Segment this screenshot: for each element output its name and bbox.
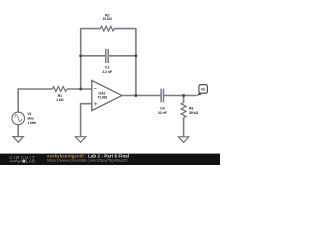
wire R3 to ground xyxy=(183,118,185,137)
wire op-amp output xyxy=(122,95,161,97)
wire feedback top right segment xyxy=(114,28,136,30)
svg-text:C1: C1 xyxy=(105,65,109,69)
svg-text:TL081: TL081 xyxy=(98,95,108,99)
wire left vertical of feedback loop xyxy=(80,28,82,89)
capacitor C1 xyxy=(106,49,108,63)
node flag Vo tail xyxy=(196,93,201,96)
junction node at op-amp output xyxy=(134,94,137,97)
voltage source V1 xyxy=(12,112,25,125)
wire C1 branch right xyxy=(108,55,136,57)
junction node at C1 right xyxy=(134,54,137,57)
footer logo orange square xyxy=(22,160,25,163)
svg-text:V1: V1 xyxy=(27,112,31,116)
junction node at inverting input xyxy=(79,88,82,91)
op-amp minus symbol xyxy=(94,88,97,90)
wire V1 bottom to ground xyxy=(17,125,19,137)
wire op-amp non-inverting input down to ground xyxy=(81,104,92,137)
resistor R2 xyxy=(100,26,114,31)
wire feedback top left segment xyxy=(81,28,101,30)
junction node at Vo/R3 xyxy=(182,94,185,97)
op-amp OA1 xyxy=(92,80,122,110)
svg-text:R3: R3 xyxy=(189,106,193,110)
capacitor C4 xyxy=(161,89,163,103)
svg-text:39 kΩ: 39 kΩ xyxy=(189,111,199,115)
op-amp plus symbol xyxy=(94,102,97,105)
ground (below R3) xyxy=(178,137,188,143)
node flag Vo box xyxy=(199,85,208,94)
footer bar xyxy=(0,154,220,165)
wire output node down to R3 xyxy=(183,96,185,103)
wire right vertical of feedback loop xyxy=(135,28,137,95)
V1 sine glyph xyxy=(15,115,22,122)
svg-text:LAB: LAB xyxy=(26,158,35,163)
ground (below op-amp + input) xyxy=(75,137,85,143)
resistor R3 xyxy=(181,103,186,118)
wire C1 branch left xyxy=(81,55,106,57)
wire C4 to output node xyxy=(164,95,197,97)
footer logo waveform xyxy=(9,160,21,163)
svg-text:2.2 nF: 2.2 nF xyxy=(102,70,113,74)
junction node at C1 left xyxy=(79,54,82,57)
svg-text:1 kΩ: 1 kΩ xyxy=(56,98,64,102)
svg-text:sine: sine xyxy=(27,116,34,120)
ground (below V1) xyxy=(13,137,23,143)
svg-text:https://www.circuitlab.com/c/5: https://www.circuitlab.com/c/5py75g43aa2… xyxy=(47,158,128,163)
svg-text:10 kΩ: 10 kΩ xyxy=(103,17,113,21)
svg-text:1 kHz: 1 kHz xyxy=(27,121,36,125)
svg-text:22 nF: 22 nF xyxy=(158,111,168,115)
resistor R1 xyxy=(52,87,67,92)
wire V1 top to R1 xyxy=(18,89,52,112)
wire R1 to op-amp inverting input xyxy=(67,88,92,90)
